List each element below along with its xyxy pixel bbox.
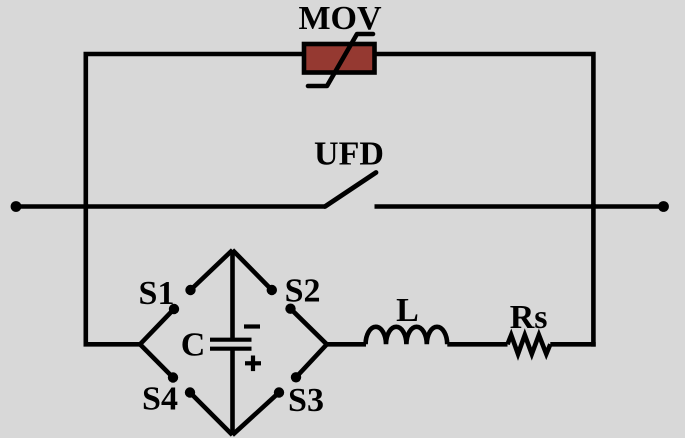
polarity plus sign: [245, 356, 261, 372]
wire: S4 contact to bottom vertex: [190, 393, 232, 436]
wire: S3 contact to bottom vertex: [232, 393, 279, 436]
svg-text:S4: S4: [142, 381, 178, 418]
wire: top vertex to S1 contact: [191, 250, 233, 290]
switch S3 upper contact: [291, 372, 301, 382]
MOV varistor body: [304, 44, 375, 73]
svg-text:C: C: [181, 327, 206, 364]
svg-text:L: L: [396, 292, 419, 329]
wire: left vertex to S4 contact: [140, 344, 173, 377]
switch S2 lower contact: [285, 304, 295, 314]
wire: capacitor top lead: [230, 250, 235, 340]
wire: inductor to resistor: [447, 342, 507, 347]
wire: right vertex to S3 contact: [296, 344, 327, 377]
switch S2 upper contact: [267, 285, 277, 295]
switch S1 lower contact: [169, 304, 179, 314]
switch S3 lower contact: [274, 387, 284, 397]
wire: left vertex to S1 contact: [140, 309, 174, 344]
resistor Rs: [508, 335, 551, 354]
polarity minus sign: [244, 324, 260, 328]
MOV varistor slash: [308, 34, 373, 86]
wire: bottom branch to left diamond vertex: [84, 342, 141, 347]
wire: top branch right segment: [377, 54, 594, 207]
svg-text:UFD: UFD: [314, 136, 384, 173]
wire: left vertical lower branch: [84, 204, 89, 344]
switch S4 lower contact: [185, 387, 195, 397]
wire: S2 contact to right vertex: [291, 309, 327, 345]
inductor L: [366, 327, 448, 345]
UFD switch arm: [325, 173, 376, 207]
switch S1 upper contact: [185, 285, 195, 295]
wire: right vertical lower branch: [591, 204, 596, 347]
terminal node right: [658, 201, 669, 212]
svg-text:S2: S2: [285, 273, 321, 310]
wire: main bus right segment: [375, 204, 664, 209]
switch S4 upper contact: [168, 372, 178, 382]
capacitor C bottom plate: [210, 347, 252, 351]
capacitor C top plate: [210, 338, 252, 342]
svg-text:Rs: Rs: [510, 299, 548, 336]
wire: resistor to right vertical: [550, 342, 595, 347]
wire: capacitor bottom lead: [230, 349, 235, 433]
svg-text:S1: S1: [139, 275, 175, 312]
svg-text:MOV: MOV: [298, 0, 382, 37]
wire: main bus left segment: [16, 204, 325, 209]
terminal node left: [11, 201, 22, 212]
wire: top vertex to S2 contact: [233, 250, 272, 290]
wire: top branch left segment: [86, 54, 302, 207]
svg-text:S3: S3: [288, 382, 324, 419]
wire: right vertex to inductor: [327, 342, 366, 347]
